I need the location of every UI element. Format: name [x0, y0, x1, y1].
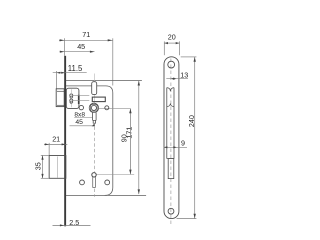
- latch connecting stubs: [73, 95, 89, 100]
- strike plate centerline (dashed): [170, 59, 172, 227]
- spindle follower (circle with 8x8 square): [89, 103, 98, 112]
- cylinder hole (oval): [92, 82, 97, 95]
- small circle right of follower: [105, 106, 109, 110]
- faceplate (side view, thick bar): [64, 56, 66, 227]
- dimension 71: [59, 30, 113, 86]
- fixing screw circle right: [105, 180, 110, 185]
- lock case top edge: [66, 80, 142, 82]
- latch pin upper with chevron: [70, 94, 73, 99]
- bottom screw hole: [168, 208, 174, 214]
- lock case bottom edge / 171 extension: [66, 194, 146, 196]
- latch body (inside case): [66, 88, 79, 108]
- svg-text:11.5: 11.5: [68, 64, 83, 73]
- latch axis line: [70, 89, 72, 107]
- extension line above faceplate: [64, 38, 66, 56]
- dimension 9 (deadbolt cutout): [164, 138, 187, 148]
- dimension 20 (plate width): [164, 32, 179, 55]
- latch bottom-right circle: [79, 105, 83, 109]
- follower centerline (dashed, down to case bottom): [93, 127, 95, 197]
- svg-text:20: 20: [168, 32, 176, 41]
- svg-text:35: 35: [34, 162, 43, 170]
- fixing screw circle left: [80, 180, 85, 185]
- lock case body outline (rounded right corners): [66, 86, 113, 195]
- latch bolt seen in cutout (top bevel curve): [167, 88, 174, 92]
- svg-text:71: 71: [82, 30, 90, 39]
- strike plate outline: [164, 57, 179, 219]
- latch bolt seen in cutout (bottom bevel curve): [167, 104, 174, 107]
- label 8x8 with leader: [74, 112, 92, 119]
- dimension 13 (latch cutout): [166, 70, 188, 80]
- dimension 45 (backset, top): [60, 42, 95, 53]
- dimension 240 (plate height): [177, 57, 197, 219]
- svg-text:240: 240: [187, 115, 196, 127]
- dimension 21 (deadbolt projection): [44, 135, 67, 156]
- latch bolt (outside faceplate): [56, 89, 64, 107]
- label 45 (backset leader, lower): [70, 119, 95, 126]
- deadbolt hidden line: [56, 157, 58, 179]
- dimension 35 (deadbolt height): [34, 155, 49, 178]
- latch pin lower with chevron: [70, 99, 73, 104]
- dimension 2.5 (faceplate thickness): [53, 218, 91, 227]
- dimension 171: [125, 81, 140, 194]
- top screw hole: [168, 61, 175, 68]
- deadbolt box: [49, 156, 66, 179]
- svg-text:90: 90: [119, 134, 128, 142]
- slot rectangle below cylinder: [92, 97, 105, 102]
- dimension 11.5 (latch projection): [53, 64, 87, 89]
- svg-text:45: 45: [75, 119, 83, 126]
- svg-text:9: 9: [181, 138, 185, 147]
- center pin with slot at bottom: [92, 173, 96, 188]
- svg-text:2.5: 2.5: [69, 218, 79, 227]
- svg-text:21: 21: [52, 135, 60, 144]
- latch right bar: [78, 95, 80, 104]
- svg-text:45: 45: [77, 42, 85, 51]
- latch cutout in plate: [167, 88, 174, 159]
- dimension 90: [96, 108, 134, 174]
- follower shaft: [93, 112, 97, 123]
- deadbolt cutout in plate: [168, 159, 174, 179]
- svg-text:13: 13: [180, 70, 188, 79]
- cylinder hole centerline: [93, 74, 95, 104]
